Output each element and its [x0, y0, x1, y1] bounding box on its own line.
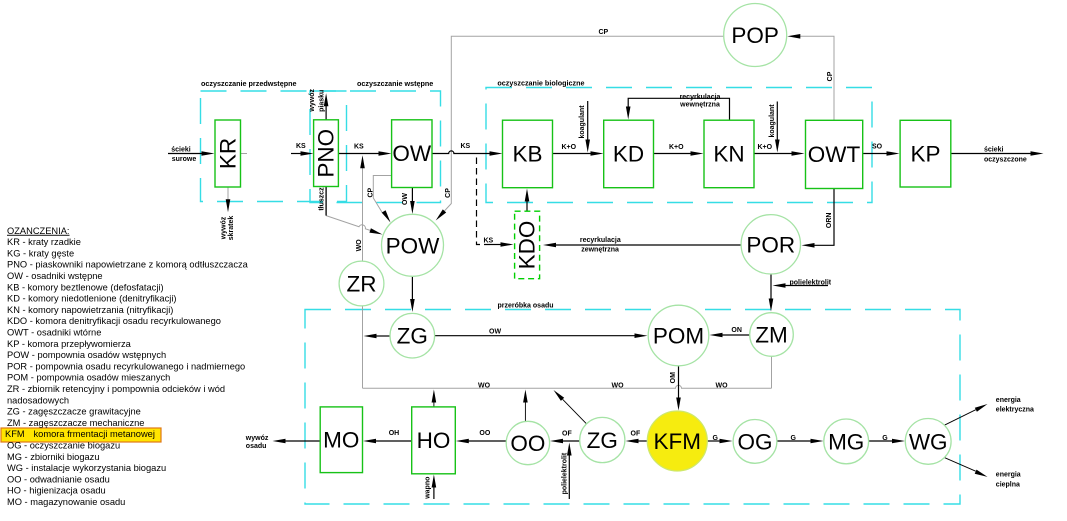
svg-text:KB - komory beztlenowe (defosf: KB - komory beztlenowe (defosfatacji) [7, 282, 164, 292]
svg-text:ZR: ZR [347, 272, 377, 297]
circle POR [741, 215, 800, 274]
svg-text:KP - komora przepływomierza: KP - komora przepływomierza [7, 339, 132, 349]
circle OG [733, 420, 777, 464]
svg-text:KR - kraty rzadkie: KR - kraty rzadkie [7, 237, 81, 247]
wire ZM bottom drop to WO collector [771, 356, 773, 388]
wire raw sewage into KR [168, 153, 203, 155]
svg-text:OG - oczyszczanie biogazu: OG - oczyszczanie biogazu [7, 441, 120, 451]
svg-text:MO - magazynowanie osadu: MO - magazynowanie osadu [7, 497, 125, 507]
wire KR right stub [241, 153, 248, 155]
legend text [5, 226, 249, 507]
circle KFM highlighted yellow [647, 411, 707, 471]
svg-text:KN - komory napowietrzania (ni: KN - komory napowietrzania (nitryfikacji… [7, 305, 173, 315]
svg-text:koagulant: koagulant [769, 104, 776, 138]
circle ZR [339, 261, 384, 306]
wire ZG2 leachate diagonal up to WO collector [563, 399, 587, 424]
svg-text:ZR - zbiornik retencyjny i pom: ZR - zbiornik retencyjny i pompownia odc… [7, 384, 225, 394]
box KR [215, 120, 241, 187]
svg-text:ZG - zagęszczacze grawitacyjne: ZG - zagęszczacze grawitacyjne [7, 407, 141, 417]
svg-text:KR: KR [215, 138, 240, 169]
svg-text:OH: OH [389, 430, 400, 437]
box KB [503, 120, 553, 188]
svg-text:wewnętrzna: wewnętrzna [679, 102, 720, 109]
svg-text:ON: ON [731, 327, 742, 334]
wire WO riser through ZR up to main sewage line [362, 167, 364, 388]
svg-text:CP: CP [445, 188, 452, 198]
svg-text:WO: WO [478, 382, 491, 389]
svg-text:surowe: surowe [172, 156, 197, 163]
wire HO leachate up to WO collector [433, 402, 435, 407]
wire CP from OW left edge down to POW [373, 176, 392, 213]
section box: oczyszczanie przedwstepne [201, 91, 347, 202]
svg-text:OO: OO [510, 431, 545, 456]
svg-text:przeróbka osadu: przeróbka osadu [498, 302, 554, 309]
svg-text:recyrkulacja: recyrkulacja [680, 94, 721, 101]
svg-text:OW: OW [402, 193, 409, 205]
wire K+O KB to KD [553, 153, 592, 155]
svg-text:ORN: ORN [826, 213, 833, 229]
box PNO [314, 120, 339, 187]
wire koagulant 2 into main line [776, 102, 778, 141]
svg-text:OO - odwadnianie osadu: OO - odwadnianie osadu [7, 474, 110, 484]
wire tluszcz drop from PNO bottom [325, 187, 327, 216]
svg-text:WO: WO [716, 382, 729, 389]
svg-text:OO: OO [479, 430, 490, 437]
svg-text:OF: OF [562, 431, 572, 438]
svg-text:OZANCZENIA:: OZANCZENIA: [7, 226, 70, 236]
wire K+O KN to OWT [754, 153, 793, 155]
svg-text:KG - kraty gęste: KG - kraty gęste [7, 248, 74, 258]
wire POR down to ZM [770, 274, 772, 299]
wire OW down into POW [411, 188, 413, 202]
svg-text:ścieki: ścieki [171, 146, 191, 153]
svg-text:wywóz: wywóz [221, 216, 228, 240]
wire KS OW to KB with hop over CP wire [432, 151, 491, 154]
svg-text:oczyszczanie biologiczne: oczyszczanie biologiczne [497, 78, 584, 87]
box KDO dashed [515, 211, 540, 279]
svg-text:KS: KS [461, 143, 471, 150]
svg-text:MG - zbiorniki biogazu: MG - zbiorniki biogazu [7, 452, 100, 462]
svg-text:ZG: ZG [397, 324, 428, 349]
svg-text:wywóz: wywóz [309, 89, 316, 113]
circle WG [905, 419, 951, 465]
svg-text:POP: POP [731, 23, 779, 48]
wire tluszcz diagonal from PNO to POW with hop over WO riser [326, 216, 370, 231]
wire OH HO to MO [376, 440, 412, 442]
svg-text:WO: WO [612, 382, 625, 389]
wire POW down into ZG [411, 276, 413, 299]
svg-text:OF: OF [631, 431, 641, 438]
wire ORN OWT down to POR [814, 189, 834, 246]
svg-text:OW: OW [489, 329, 501, 336]
wire recyrkulacja wewnetrzna KN to KD [628, 98, 729, 120]
wire OO leachate up to WO collector [524, 402, 526, 422]
wire OW sludge ZG to POM [435, 335, 635, 337]
wire wapno up into HO [433, 487, 435, 499]
svg-text:koagulant: koagulant [579, 105, 586, 139]
svg-text:WO: WO [356, 239, 363, 252]
legend highlight box KFM [1, 428, 161, 442]
svg-text:osadu: osadu [246, 443, 267, 450]
svg-text:energia: energia [996, 472, 1021, 479]
circle ZG gravity thickener [390, 313, 435, 358]
wire koagulant 1 into main line [587, 101, 589, 140]
svg-text:energia: energia [996, 397, 1021, 404]
box MO [320, 407, 362, 473]
svg-text:POW - pompownia osadów wstępny: POW - pompownia osadów wstępnych [7, 350, 166, 360]
circle ZG2 [580, 417, 625, 462]
svg-text:wapno: wapno [425, 477, 432, 500]
svg-text:OW: OW [392, 141, 432, 166]
wire OF KFM to ZG2 [638, 440, 647, 442]
svg-text:elektryczna: elektryczna [996, 407, 1034, 414]
svg-text:HO: HO [417, 428, 451, 453]
svg-text:KS: KS [484, 238, 494, 245]
svg-text:G: G [713, 435, 719, 442]
wire KS PNO to OW [339, 153, 380, 155]
wire KS dashed branch to KDO [477, 158, 491, 245]
svg-text:KFM: KFM [654, 429, 702, 454]
svg-text:KB: KB [512, 142, 542, 167]
box KN [704, 120, 754, 188]
svg-text:MO: MO [323, 428, 359, 453]
svg-text:KDO: KDO [515, 221, 540, 270]
section box: oczyszczanie biologiczne [486, 88, 872, 203]
wire energia cieplna from WG [944, 458, 975, 472]
svg-text:wywóz: wywóz [245, 435, 269, 442]
wire wywoz osadu out of MO [286, 440, 321, 442]
wire ON ZM to POM [722, 334, 750, 336]
svg-text:K+O: K+O [758, 144, 773, 151]
svg-text:KP: KP [910, 141, 940, 166]
svg-text:nadosadowych: nadosadowych [7, 395, 69, 405]
circle POW [382, 214, 444, 276]
svg-text:CP: CP [368, 188, 375, 198]
svg-text:oczyszczone: oczyszczone [984, 156, 1027, 163]
svg-text:piasku: piasku [319, 90, 326, 112]
wire CP from POP left down to POW [445, 36, 724, 211]
svg-text:SO: SO [872, 144, 883, 151]
svg-text:CP: CP [599, 29, 609, 36]
svg-text:skratek: skratek [228, 216, 235, 241]
svg-text:KD - komory niedotlenione (den: KD - komory niedotlenione (denitryfikacj… [7, 294, 176, 304]
wire recyrkulacja zewnetrzna POR to KDO [556, 244, 741, 246]
circle POP [724, 4, 787, 67]
wire G MG to WG [869, 440, 893, 442]
svg-text:OG: OG [737, 429, 772, 454]
wire ZG overflow left to WO riser [376, 335, 390, 337]
svg-text:OM: OM [670, 372, 677, 383]
svg-text:polielektrolit: polielektrolit [562, 452, 569, 494]
svg-text:KS: KS [354, 143, 364, 150]
wire polielektrolit up into OF line [568, 456, 570, 500]
svg-text:POW: POW [386, 233, 441, 258]
svg-text:K+O: K+O [562, 144, 577, 151]
svg-text:KD: KD [613, 142, 644, 167]
wire polielektrolit into POR-ZM line [785, 285, 828, 287]
svg-text:KN: KN [713, 142, 744, 167]
svg-text:OWT - osadniki wtórne: OWT - osadniki wtórne [7, 328, 101, 338]
wire KDO up into KB [526, 201, 528, 211]
box OW [392, 120, 432, 188]
svg-text:HO - higienizacja osadu: HO - higienizacja osadu [7, 486, 106, 496]
section box: oczyszczanie wstepne [310, 91, 441, 203]
circle ZM [750, 313, 794, 357]
box KP [900, 120, 951, 187]
svg-text:ZG: ZG [587, 428, 618, 453]
svg-text:zewnętrzna: zewnętrzna [581, 246, 619, 253]
wire G OG to MG [777, 440, 811, 442]
circle MG [824, 419, 869, 464]
svg-text:G: G [791, 435, 797, 442]
svg-text:ZM - zagęszczacze mechaniczne: ZM - zagęszczacze mechaniczne [7, 418, 144, 428]
svg-text:cieplna: cieplna [996, 482, 1020, 489]
wire OO to HO [469, 440, 507, 442]
svg-text:OWT: OWT [808, 142, 861, 167]
svg-text:G: G [882, 435, 888, 442]
wire WO collector horizontal with hop over OM line [363, 385, 772, 388]
wire KR bottom stub (wywoz skratek) [227, 187, 229, 201]
box OWT [806, 120, 863, 188]
svg-text:oczyszczanie wstępne: oczyszczanie wstępne [357, 79, 433, 88]
svg-text:polielektrolit: polielektrolit [790, 279, 832, 286]
wire CP from OWT top up to POP right [797, 36, 834, 120]
svg-text:K+O: K+O [669, 144, 684, 151]
svg-text:MG: MG [828, 429, 864, 454]
svg-text:oczyszczanie przedwstępne: oczyszczanie przedwstępne [201, 79, 296, 88]
wire wywoz piasku up from PNO [325, 106, 327, 120]
svg-text:ZM: ZM [755, 323, 788, 348]
svg-text:OW - osadniki wstępne: OW - osadniki wstępne [7, 271, 103, 281]
svg-text:recyrkulacja: recyrkulacja [580, 237, 621, 244]
svg-text:tłuszcz: tłuszcz [319, 187, 326, 211]
section box: przerobka osadu [305, 310, 960, 505]
circle OO [506, 421, 549, 464]
circle POM [648, 305, 709, 366]
svg-text:ścieki: ścieki [984, 146, 1004, 153]
svg-text:PNO - piaskowniki napowietrzan: PNO - piaskowniki napowietrzane z komorą… [7, 260, 249, 270]
svg-text:WG: WG [909, 429, 948, 454]
svg-text:POR - pompownia osadu recyrkul: POR - pompownia osadu recyrkulowanego i … [7, 361, 245, 371]
svg-text:WG - instalacje wykorzystania: WG - instalacje wykorzystania biogazu [7, 463, 166, 473]
svg-text:POM: POM [653, 324, 704, 349]
svg-text:CP: CP [827, 71, 834, 81]
wire energia elektryczna from WG [944, 410, 975, 426]
svg-text:PNO: PNO [314, 129, 339, 178]
wire KS KR to PNO [291, 153, 302, 155]
svg-text:POR: POR [746, 232, 795, 257]
wire SO OWT to KP [863, 153, 888, 155]
wire OM POM down to KFM [678, 366, 680, 398]
wire treated sewage out of KP [951, 153, 1031, 155]
svg-text:KDO - komora denitryfikacji os: KDO - komora denitryfikacji osadu recyrk… [7, 316, 221, 326]
wire G KFM to OG [707, 440, 720, 442]
box KD [604, 120, 654, 188]
wire K+O KD to KN [654, 153, 692, 155]
svg-text:KS: KS [296, 143, 306, 150]
svg-text:POM - pompownia osadów mieszan: POM - pompownia osadów mieszanych [7, 373, 170, 383]
box HO [412, 407, 456, 474]
wire OF ZG2 to OO [563, 440, 580, 442]
